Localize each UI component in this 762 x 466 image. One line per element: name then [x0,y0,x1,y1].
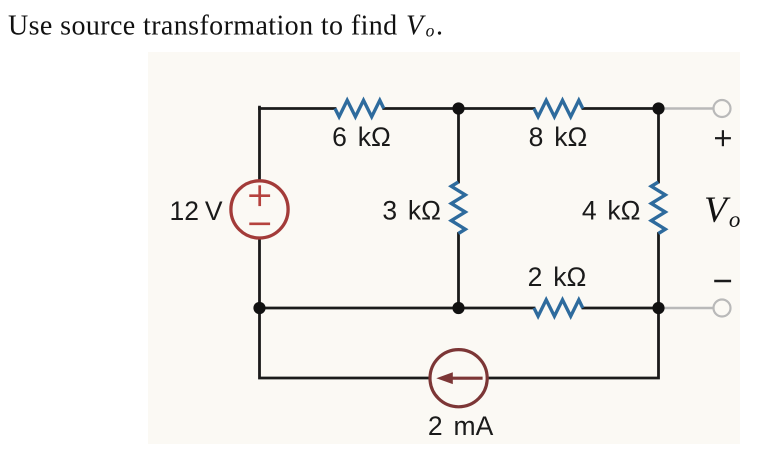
svg-text:3 kΩ: 3 kΩ [382,196,441,226]
svg-text:2 mA: 2 mA [428,411,494,441]
svg-text:8 kΩ: 8 kΩ [529,122,588,152]
svg-text:6 kΩ: 6 kΩ [332,122,391,152]
svg-text:12 V: 12 V [169,196,222,226]
svg-text:Use source transformation to f: Use source transformation to find Vo. [8,11,443,42]
svg-text:2 kΩ: 2 kΩ [528,262,587,292]
svg-text:4 kΩ: 4 kΩ [582,196,641,226]
